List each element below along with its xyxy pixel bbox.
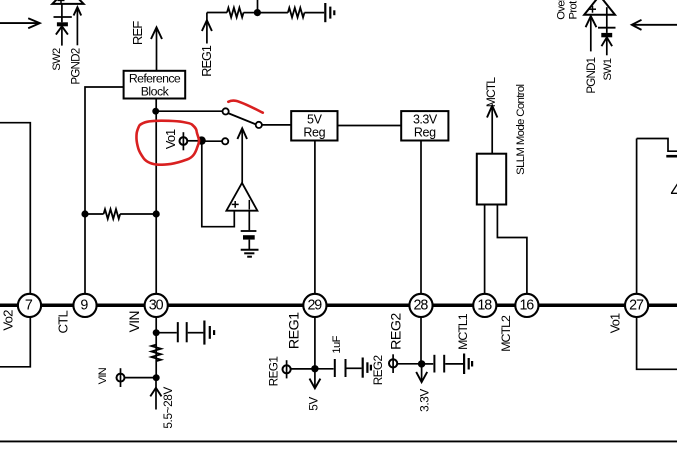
svg-text:VIN: VIN xyxy=(97,367,109,384)
resistor R4 (vertical) xyxy=(151,345,161,362)
wire Vo2 top (left edge to pin 7) xyxy=(0,123,30,294)
wire pin 7 bottom (down then left edge) xyxy=(0,317,30,367)
IC outline top-right with pin notch xyxy=(637,139,677,152)
Reference Block xyxy=(124,71,186,99)
wire below node with up arrowhead xyxy=(150,378,161,410)
wire switch to 5V Reg xyxy=(262,124,291,126)
terminal Vo1 xyxy=(180,132,188,150)
wire node to switch bottom contact xyxy=(202,140,223,142)
wire 5V Reg down to pin 29 xyxy=(314,141,316,295)
wire U4 left input to diode D2 xyxy=(61,4,63,22)
terminal VIN xyxy=(117,368,125,387)
node junction dot (reference output) xyxy=(152,108,159,115)
svg-text:REG1: REG1 xyxy=(287,312,303,349)
ground (right-facing) xyxy=(204,321,214,345)
svg-text:Reg: Reg xyxy=(414,125,436,139)
node junction dot (REG1 row) xyxy=(311,365,318,372)
svg-text:29: 29 xyxy=(307,297,322,313)
node junction dot on Vo1 line xyxy=(153,210,160,217)
wire REG1 up with arrowhead xyxy=(202,13,212,44)
arrow from right edge pointing left xyxy=(632,20,677,30)
resistor R3 xyxy=(104,209,121,219)
wire pin 27 top (to IC outline corner) xyxy=(636,139,638,295)
svg-text:PGND1: PGND1 xyxy=(585,57,598,93)
red annotation loop (around Vo1) xyxy=(136,121,199,165)
svg-text:MCTL: MCTL xyxy=(484,77,498,107)
wire terminal REG2 to node xyxy=(397,363,421,365)
wire stub up from node xyxy=(257,0,259,13)
red annotation stroke (over switch) xyxy=(228,101,262,113)
wire SW1 xyxy=(606,37,608,55)
capacitor C1 top plate xyxy=(241,230,257,232)
terminal REG1 xyxy=(283,360,291,378)
ground (right-facing) xyxy=(363,358,371,378)
wire to capacitor C2 xyxy=(156,332,177,334)
svg-text:1uF: 1uF xyxy=(331,335,343,353)
capacitor C4 xyxy=(434,355,444,373)
diode D2 cathode bar xyxy=(54,16,72,18)
pin 18 xyxy=(473,294,496,317)
capacitor C2 xyxy=(178,322,187,342)
svg-text:Vo1: Vo1 xyxy=(607,313,622,333)
capacitor C3 xyxy=(335,359,346,377)
switch S1 common contact xyxy=(256,122,262,128)
wire SLLM to pin 16 xyxy=(497,205,527,295)
svg-text:MCTL1: MCTL1 xyxy=(456,313,470,350)
svg-text:28: 28 xyxy=(414,297,429,313)
svg-text:Vo1: Vo1 xyxy=(163,129,178,149)
wire terminal VIN to node xyxy=(125,377,157,379)
wire C4 to ground xyxy=(445,363,463,365)
pin 27 xyxy=(625,294,648,317)
arrowhead SW1 xyxy=(602,37,613,46)
svg-text:REG1: REG1 xyxy=(200,45,214,77)
svg-text:VIN: VIN xyxy=(127,311,142,332)
wire C2 to ground xyxy=(188,332,204,334)
wire pin 28 down xyxy=(420,317,422,364)
bottom border line xyxy=(0,440,677,442)
wire node to capacitor C4 xyxy=(422,363,434,365)
pin 9 xyxy=(73,294,96,317)
wire terminal REG1 to node xyxy=(291,368,315,370)
svg-text:7: 7 xyxy=(25,297,33,313)
arrow PGND2 xyxy=(74,7,82,45)
terminal REG2 xyxy=(389,354,397,373)
wire SLLM to pin 18 xyxy=(484,205,486,295)
wire op-amp output arrow xyxy=(237,128,247,183)
ground (right-facing) xyxy=(464,354,472,375)
svg-text:5.5~28V: 5.5~28V xyxy=(161,387,175,429)
svg-text:27: 27 xyxy=(629,297,644,313)
arrow into left edge xyxy=(0,18,40,28)
switch S1 blade xyxy=(228,113,255,124)
comparator U5 (top-right, cut off at top) xyxy=(584,0,615,15)
pin 16 xyxy=(515,294,538,317)
wire R2 to ground xyxy=(304,12,324,14)
wire R1 to node xyxy=(244,12,255,14)
node junction dot (REG2 row) xyxy=(418,360,425,367)
wire Vo1 main vertical xyxy=(155,99,157,295)
svg-text:9: 9 xyxy=(80,297,88,313)
svg-text:CTL: CTL xyxy=(55,310,70,333)
svg-text:Vo2: Vo2 xyxy=(1,310,16,331)
switch S1 bottom contact xyxy=(222,138,228,144)
wire to resistor R1 xyxy=(207,12,227,14)
SLLM block xyxy=(477,154,506,205)
wire 5V Reg to 3.3V Reg xyxy=(338,125,402,127)
5V regulator block xyxy=(291,111,337,140)
wire SW2 xyxy=(61,26,63,45)
resistor R2 xyxy=(288,8,305,18)
switch S1 top contact xyxy=(223,108,229,114)
wire C1 to ground xyxy=(248,240,250,250)
svg-text:3.3V: 3.3V xyxy=(418,389,432,412)
svg-text:REG1: REG1 xyxy=(267,357,281,387)
comparator U4 (top-left, cut off at top) xyxy=(52,0,83,4)
3.3V regulator block xyxy=(401,111,448,140)
svg-text:3.3V: 3.3V xyxy=(413,112,438,126)
wire node to resistor R2 xyxy=(257,12,288,14)
svg-text:MCTL2: MCTL2 xyxy=(499,315,513,352)
node junction dot xyxy=(254,9,261,16)
pin 30 xyxy=(145,294,168,317)
svg-text:30: 30 xyxy=(149,297,164,313)
svg-text:Over: Over xyxy=(555,0,567,20)
ground (right-facing) xyxy=(325,3,334,22)
diode D1 cathode bar xyxy=(598,27,616,29)
capacitor C1 bottom plate xyxy=(243,235,255,239)
node junction dot on CTL wire xyxy=(81,210,88,217)
wire op-amp - input xyxy=(248,211,250,231)
arrow MCTL xyxy=(487,106,497,154)
svg-text:4: 4 xyxy=(671,181,677,202)
IC pin bar xyxy=(666,155,677,158)
wire terminal to node xyxy=(187,140,198,142)
node junction dot (VIN terminal) xyxy=(153,374,160,381)
wire node down with down arrowhead (5V out) xyxy=(310,369,321,389)
node junction dot (VIN cap) xyxy=(153,329,160,336)
svg-text:Prot: Prot xyxy=(568,0,580,19)
wire pin 27 bottom (down then right edge) xyxy=(637,317,677,369)
arrow PGND1 xyxy=(586,16,597,51)
diode D2 body xyxy=(57,22,68,26)
wire U5 right input to diode D1 xyxy=(606,7,608,33)
svg-text:5V: 5V xyxy=(307,397,321,411)
wire pin 30 down xyxy=(155,317,157,378)
ground xyxy=(241,250,259,257)
wire R3 to Vo1 line xyxy=(120,213,156,215)
wire CTL from Reference Block left to pin 9 xyxy=(85,87,124,294)
wire node to capacitor C3 xyxy=(315,368,334,370)
wire op-amp + input xyxy=(202,144,235,227)
wire to resistor R3 xyxy=(85,213,104,215)
svg-text:SW2: SW2 xyxy=(51,48,63,71)
pin 7 xyxy=(18,294,41,317)
arrowhead SW2 xyxy=(56,26,68,34)
wire 3.3V Reg down to pin 28 xyxy=(420,141,422,295)
svg-text:SLLM Mode Control: SLLM Mode Control xyxy=(515,84,527,174)
node junction dot B xyxy=(197,136,205,144)
svg-text:SW1: SW1 xyxy=(602,58,614,80)
op-amp U1 xyxy=(226,183,257,211)
wire node down with down arrowhead (3.3V out) xyxy=(416,364,427,382)
svg-text:18: 18 xyxy=(477,297,492,313)
svg-text:Block: Block xyxy=(141,85,170,99)
bus (IC top edge) xyxy=(0,303,677,307)
svg-text:REF: REF xyxy=(130,21,145,45)
svg-text:REG2: REG2 xyxy=(389,313,405,350)
resistor R1 xyxy=(227,8,244,18)
arrow REF xyxy=(151,27,162,71)
wire C3 to ground xyxy=(347,367,362,369)
svg-text:Reg: Reg xyxy=(303,125,325,139)
wire pin 29 down xyxy=(314,317,316,369)
svg-text:16: 16 xyxy=(519,297,534,313)
svg-text:PGND2: PGND2 xyxy=(70,48,83,84)
pin 28 xyxy=(409,294,432,317)
svg-text:Reference: Reference xyxy=(129,72,181,86)
svg-text:5V: 5V xyxy=(307,112,323,126)
diode D1 body xyxy=(601,33,612,37)
svg-text:REG2: REG2 xyxy=(371,356,385,386)
pin 29 xyxy=(303,294,326,317)
wire to switch top contact xyxy=(156,110,223,112)
